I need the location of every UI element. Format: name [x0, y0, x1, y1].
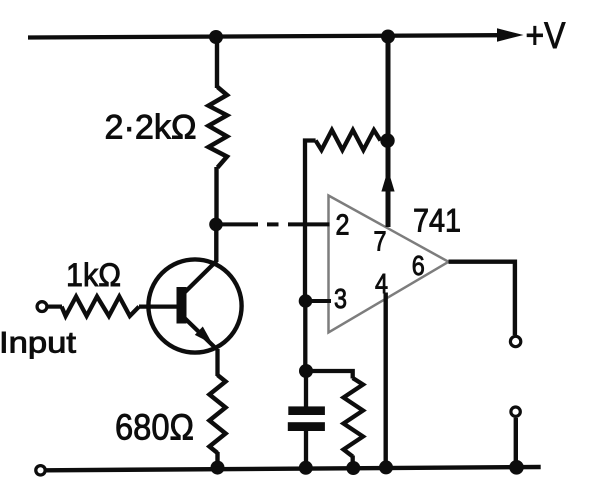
- transistor Q1 body circle: [148, 259, 241, 352]
- wire: pin 3 stub: [306, 299, 332, 303]
- wire: bottom rail: [46, 467, 541, 470]
- terminal: bottom-left open circle: [36, 466, 45, 475]
- wire: R3 to bottom rail: [215, 452, 219, 468]
- transistor Q1 emitter arrowhead: [195, 327, 213, 345]
- wire: op-amp pin 4 to bottom rail: [384, 293, 388, 469]
- transistor Q1 emitter lead: [184, 318, 217, 350]
- resistor R4 feedback zigzag: [316, 130, 381, 150]
- wire: collector node to Q1 collector: [214, 224, 218, 262]
- wire: C1 bottom plate to rail: [304, 430, 308, 468]
- node: feedback / supply junction: [380, 133, 394, 147]
- svg-text:Input: Input: [0, 327, 77, 360]
- svg-text:1kΩ: 1kΩ: [66, 257, 121, 293]
- terminal: output upper open circle: [510, 336, 520, 346]
- svg-text:+V: +V: [526, 15, 566, 56]
- transistor Q1 collector lead: [184, 261, 217, 293]
- op-amp U1 triangle: [329, 196, 449, 333]
- wire: output from pin 6: [449, 262, 515, 335]
- node: C1 / bottom rail junction: [299, 461, 313, 475]
- svg-text:6: 6: [412, 250, 425, 281]
- node: bottom rail right junction: [509, 460, 524, 475]
- wire: op-amp pin 2 stub: [288, 222, 330, 226]
- transistor Q1 base bar: [177, 287, 187, 324]
- wire: R4 to supply junction: [381, 138, 390, 142]
- svg-text:2: 2: [336, 209, 350, 241]
- wire: cap node to C1 top plate: [304, 371, 308, 407]
- wire: R1 to collector node: [214, 167, 218, 226]
- wire: net B vertical (feedback corner to pin3 node): [305, 141, 316, 302]
- wire: R5 to bottom rail: [351, 456, 355, 469]
- capacitor C1 bottom plate: [288, 422, 325, 431]
- resistor R1 2.2k zigzag: [209, 87, 228, 168]
- wire: cap node to R5 top: [306, 371, 353, 379]
- arrowhead on pin 7 supply wire: [381, 170, 394, 192]
- svg-text:3: 3: [334, 283, 347, 314]
- node: collector node: [209, 218, 223, 232]
- node: rail / R1 junction: [209, 30, 223, 44]
- wire: +V top supply rail: [28, 35, 500, 37]
- wire: rail to R1: [215, 37, 219, 88]
- wire: emitter to R3: [215, 349, 219, 376]
- node: pin 4 / bottom rail junction: [379, 460, 393, 474]
- dashed wire: collector node to pin 2 (segment a): [219, 222, 258, 226]
- wire: input terminal to R2: [47, 305, 62, 309]
- svg-text:2·2kΩ: 2·2kΩ: [105, 109, 197, 147]
- terminal: input open circle: [37, 302, 47, 312]
- wire: R2 to Q1 base: [139, 304, 177, 308]
- +V arrowhead: [497, 28, 524, 41]
- svg-text:741: 741: [413, 203, 461, 239]
- svg-text:680Ω: 680Ω: [115, 407, 194, 448]
- node: rail / supply-line junction: [381, 30, 395, 44]
- node: R5 / bottom rail junction: [346, 461, 360, 475]
- terminal: output lower open circle: [511, 407, 520, 416]
- resistor R5 zigzag: [344, 378, 364, 457]
- wire: net B pin3 node to cap node: [303, 301, 307, 371]
- wire: supply junction to op-amp pin 7: [386, 141, 391, 227]
- svg-text:7: 7: [374, 226, 387, 257]
- wire: supply line from top rail: [386, 37, 391, 141]
- wire: lower terminal to bottom rail: [514, 418, 518, 468]
- node: capacitor / R5 junction: [299, 364, 313, 378]
- svg-text:4: 4: [375, 268, 388, 299]
- resistor R3 680 zigzag: [209, 375, 225, 453]
- dashed wire: collector node to pin 2 (dash b): [267, 222, 279, 226]
- resistor R2 1k zigzag: [62, 297, 139, 317]
- node: emitter / bottom rail junction: [211, 461, 225, 475]
- node: pin 3 junction: [299, 294, 313, 308]
- capacitor C1 top plate: [288, 406, 325, 415]
